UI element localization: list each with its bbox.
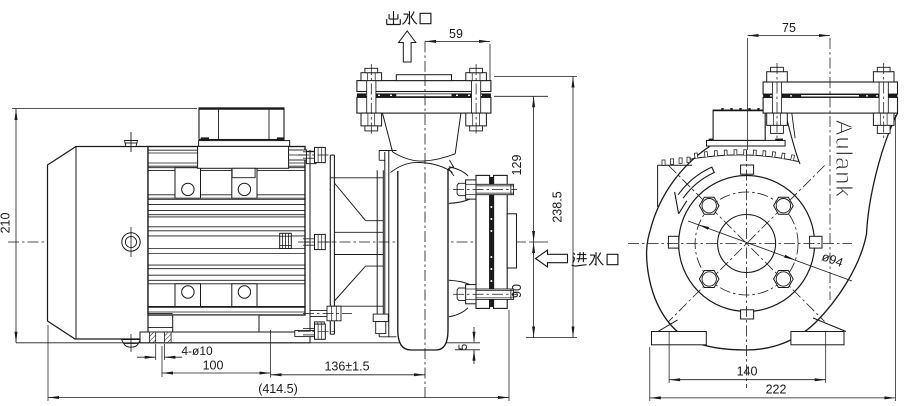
svg-text:129: 129	[510, 155, 524, 176]
svg-text:136±1.5: 136±1.5	[324, 360, 369, 374]
svg-text:140: 140	[737, 365, 758, 379]
svg-text:5: 5	[458, 344, 470, 350]
svg-text:210: 210	[0, 213, 13, 234]
svg-text:238.5: 238.5	[551, 191, 565, 222]
svg-text:75: 75	[782, 21, 796, 35]
svg-text:Aulank: Aulank	[831, 120, 857, 198]
svg-text:59: 59	[449, 27, 463, 41]
svg-text:100: 100	[203, 359, 224, 373]
svg-text:4-ø10: 4-ø10	[181, 344, 213, 358]
svg-text:90: 90	[510, 284, 524, 298]
svg-text:222: 222	[766, 383, 787, 397]
svg-text:(414.5): (414.5)	[258, 382, 298, 396]
